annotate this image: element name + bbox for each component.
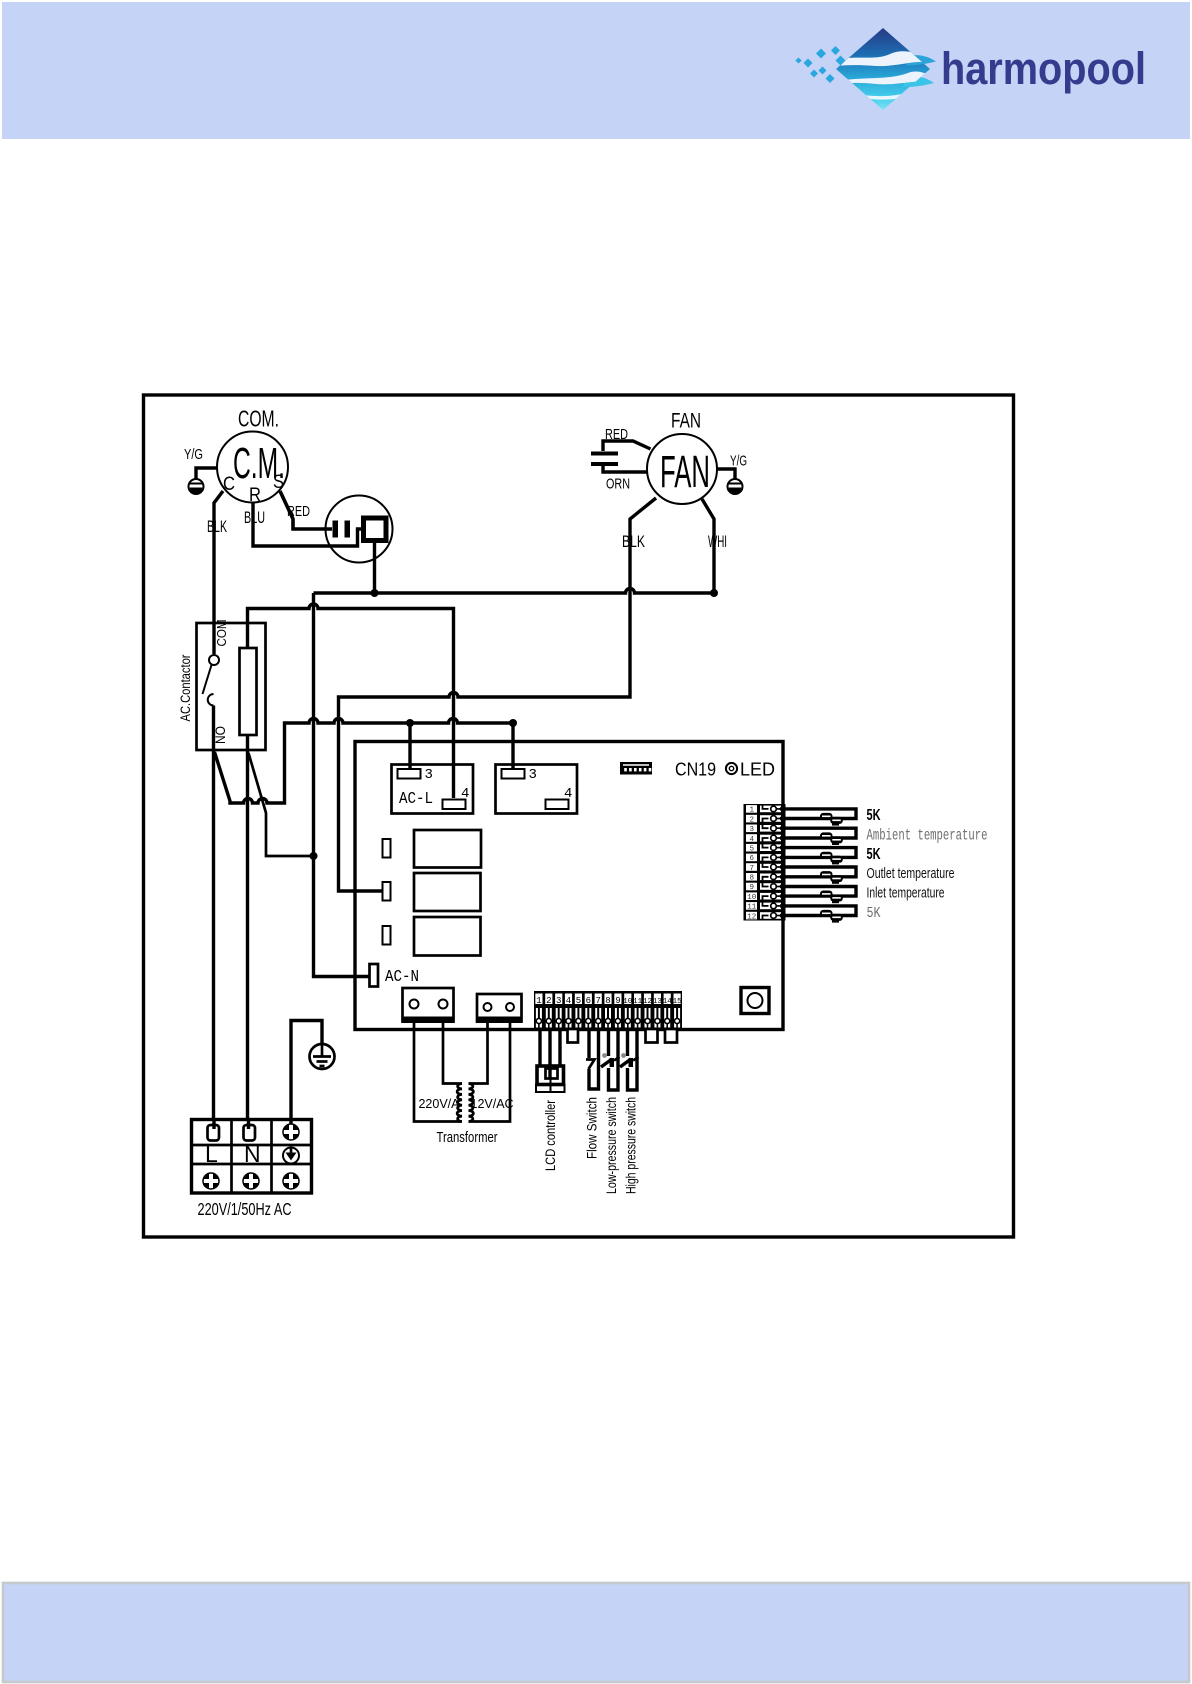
logo harmopool mark xyxy=(829,28,936,110)
svg-text:AC-N: AC-N xyxy=(385,968,419,987)
logo diamond dots xyxy=(795,46,845,83)
transformer T1 coils xyxy=(457,1084,473,1122)
svg-text:FAN: FAN xyxy=(671,410,701,433)
svg-text:FAN: FAN xyxy=(660,446,710,497)
wire NO to terminal L xyxy=(212,706,215,1122)
logo swoosh tails xyxy=(906,55,936,65)
wire earth to terminal block xyxy=(291,1021,322,1122)
svg-text:LCD controller: LCD controller xyxy=(543,1100,558,1171)
wire neutral bus xyxy=(314,589,715,593)
sensor ambient temperature xyxy=(780,827,988,846)
terminal screws bottom row xyxy=(203,1173,299,1189)
wire contactor NO to relay pins 3 xyxy=(215,719,514,804)
wire ORN fan xyxy=(603,466,648,493)
svg-text:3: 3 xyxy=(556,996,561,1006)
svg-text:2: 2 xyxy=(749,816,754,824)
capacitor compressor xyxy=(326,496,393,563)
svg-text:9: 9 xyxy=(615,996,620,1006)
header band xyxy=(2,2,1190,139)
connector J1 xyxy=(402,988,455,1023)
svg-text:Y/G: Y/G xyxy=(730,453,747,470)
svg-text:220V/A: 220V/A xyxy=(418,1097,460,1111)
svg-text:15: 15 xyxy=(673,998,683,1006)
pin stub 14-15 xyxy=(665,1029,677,1043)
node neutral junction xyxy=(310,852,318,860)
terminal strip CN1 15-pin xyxy=(534,991,682,1031)
svg-text:12: 12 xyxy=(747,913,756,921)
svg-text:4: 4 xyxy=(749,836,754,844)
high pressure switch xyxy=(620,1028,639,1090)
svg-text:COM: COM xyxy=(214,620,229,647)
svg-text:1: 1 xyxy=(536,996,541,1006)
svg-text:5K: 5K xyxy=(867,807,881,824)
ground earth screw left xyxy=(189,479,204,494)
svg-text:BLK: BLK xyxy=(207,518,227,536)
svg-text:5K: 5K xyxy=(867,905,881,922)
wire RED compressor S to capacitor xyxy=(280,491,332,529)
svg-text:Flow Switch: Flow Switch xyxy=(585,1097,600,1159)
ground earth screw right xyxy=(728,479,743,494)
contactor switch blade xyxy=(203,665,212,694)
svg-text:AC-L: AC-L xyxy=(399,790,433,809)
wire BLK fan to relay pin xyxy=(339,498,657,891)
capacitor fan xyxy=(591,452,618,467)
svg-text:4: 4 xyxy=(564,786,572,802)
pin stub 4 xyxy=(568,1029,579,1043)
node WHI-neutral junction xyxy=(710,589,718,597)
svg-text:220V/1/50Hz AC: 220V/1/50Hz AC xyxy=(198,1199,292,1219)
svg-text:N: N xyxy=(244,1141,261,1167)
svg-text:CN19: CN19 xyxy=(675,759,716,780)
svg-text:3: 3 xyxy=(749,826,754,834)
relay K4 xyxy=(414,873,481,911)
sensor inlet temperature xyxy=(780,885,945,904)
svg-text:9: 9 xyxy=(749,884,754,892)
node capacitor-neutral junction xyxy=(371,589,379,597)
terminal earth arrow xyxy=(283,1148,299,1164)
switch S1 box bottom right of PCB xyxy=(741,988,769,1014)
wire BLU compressor R to capacitor xyxy=(244,503,363,546)
svg-text:AC.Contactor: AC.Contactor xyxy=(178,654,193,721)
svg-text:5: 5 xyxy=(749,845,754,853)
ground earth symbol xyxy=(310,1044,335,1069)
LED indicator xyxy=(726,763,737,774)
svg-text:WHI: WHI xyxy=(708,533,727,551)
svg-text:Outlet temperature: Outlet temperature xyxy=(867,865,955,882)
LCD controller connector xyxy=(536,1066,565,1092)
svg-text:2: 2 xyxy=(546,996,551,1006)
AC contactor xyxy=(178,620,266,751)
wire RED fan to capacitor xyxy=(603,426,651,451)
fan motor FAN xyxy=(647,410,717,505)
svg-text:BLK: BLK xyxy=(622,533,645,551)
svg-text:10: 10 xyxy=(623,998,633,1006)
svg-text:RED: RED xyxy=(287,503,310,520)
relay K1 AC-L xyxy=(392,765,474,814)
svg-text:11: 11 xyxy=(747,904,757,912)
sensor 5K (1) xyxy=(780,807,881,826)
svg-text:3: 3 xyxy=(425,767,433,783)
sensor 5K (3) xyxy=(780,905,881,923)
svg-text:RED: RED xyxy=(605,426,628,443)
pin stub 12-13 xyxy=(646,1029,658,1043)
contactor coil xyxy=(240,648,257,735)
connector CN19 xyxy=(620,762,652,775)
svg-text:BLU: BLU xyxy=(244,509,265,527)
contactor switch contact COM xyxy=(209,655,219,665)
node relay2 pin3 junction xyxy=(509,719,517,727)
flow switch xyxy=(586,1028,599,1089)
svg-text:8: 8 xyxy=(749,875,754,883)
svg-text:13: 13 xyxy=(653,998,663,1006)
svg-text:10: 10 xyxy=(747,894,757,902)
terminal clamp N xyxy=(244,1121,256,1141)
wire neutral drop to AC-N xyxy=(314,593,370,977)
relay K5 xyxy=(414,917,481,956)
relay K2 xyxy=(496,765,578,814)
pin AC-N xyxy=(370,964,379,987)
PCB board xyxy=(355,742,783,1030)
svg-text:ORN: ORN xyxy=(606,476,630,493)
svg-text:5: 5 xyxy=(576,996,581,1006)
wire Y/G compressor to ground xyxy=(184,446,218,479)
wire capacitor to neutral bus xyxy=(373,540,376,593)
svg-text:7: 7 xyxy=(595,996,600,1006)
footer band xyxy=(3,1583,1189,1682)
compressor motor C.M. xyxy=(217,406,288,507)
svg-text:12: 12 xyxy=(643,998,652,1006)
wire to relay1 pin3 xyxy=(408,723,411,768)
svg-text:6: 6 xyxy=(749,855,754,863)
svg-text:Transformer: Transformer xyxy=(437,1130,498,1146)
svg-text:3: 3 xyxy=(529,767,537,783)
svg-text:1: 1 xyxy=(749,807,754,815)
diagram frame xyxy=(144,395,1014,1237)
svg-text:14: 14 xyxy=(663,998,673,1006)
svg-text:5K: 5K xyxy=(867,846,881,863)
pin relay K3 xyxy=(383,839,391,858)
svg-text:LED: LED xyxy=(740,759,775,780)
wire coil bottom to AC-N junction xyxy=(249,753,314,856)
wire WHI fan to neutral bus xyxy=(702,499,727,593)
low-pressure switch xyxy=(601,1028,620,1090)
connector CN2 12-pin right strip xyxy=(744,804,786,921)
terminal clamp L xyxy=(208,1121,220,1141)
svg-text:4: 4 xyxy=(461,786,469,802)
contactor switch contact NO xyxy=(208,694,214,706)
wire Y/G fan to ground xyxy=(717,453,747,480)
wire coil top to relay AC-L pin 4 xyxy=(248,604,454,798)
sensor outlet temperature xyxy=(780,865,955,884)
svg-text:High pressure switch: High pressure switch xyxy=(624,1097,639,1194)
wire BLK compressor C to contactor COM xyxy=(207,491,227,654)
connector J2 xyxy=(476,994,523,1023)
svg-text:11: 11 xyxy=(633,998,643,1006)
wire coil bottom to terminal N xyxy=(246,735,249,1121)
svg-text:4: 4 xyxy=(566,996,571,1006)
relay K3 xyxy=(414,830,481,868)
svg-text:L: L xyxy=(205,1141,218,1167)
svg-text:C: C xyxy=(223,474,235,495)
svg-text:COM.: COM. xyxy=(238,406,279,432)
terminal screw earth top xyxy=(283,1121,299,1140)
pin relay K4 xyxy=(383,882,391,901)
transformer T1 wires xyxy=(414,1023,510,1122)
wire to relay2 pin3 xyxy=(511,723,514,768)
svg-text:Y/G: Y/G xyxy=(184,446,203,463)
svg-text:7: 7 xyxy=(749,865,754,873)
svg-text:8: 8 xyxy=(605,996,610,1006)
terminal block TB1 xyxy=(192,1120,312,1194)
svg-text:Ambient temperature: Ambient temperature xyxy=(867,827,988,845)
node relay1 pin3 junction xyxy=(406,719,414,727)
sensor 5K (2) xyxy=(780,846,881,864)
svg-text:harmopool: harmopool xyxy=(941,43,1146,94)
svg-text:Inlet temperature: Inlet temperature xyxy=(867,885,945,902)
svg-text:12V/AC: 12V/AC xyxy=(471,1097,514,1111)
svg-text:Low-pressure switch: Low-pressure switch xyxy=(604,1097,619,1194)
svg-text:6: 6 xyxy=(586,996,591,1006)
pin relay K5 xyxy=(383,926,391,945)
svg-text:S: S xyxy=(273,472,284,493)
LCD controller wires xyxy=(540,1028,560,1078)
svg-text:R: R xyxy=(249,485,261,506)
